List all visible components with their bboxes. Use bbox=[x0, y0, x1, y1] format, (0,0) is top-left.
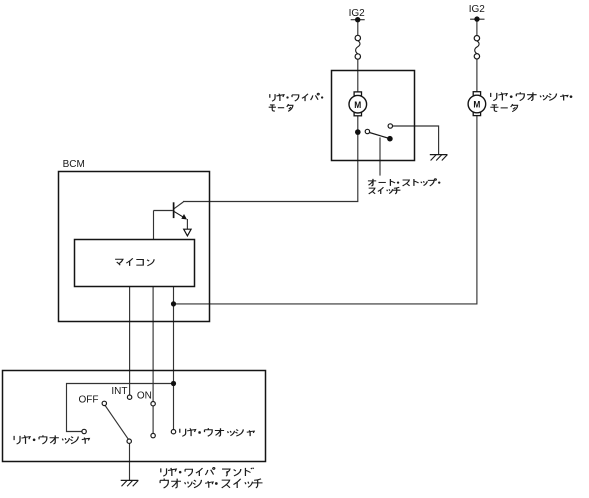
svg-text:IG2: IG2 bbox=[469, 4, 486, 15]
svg-text:OFF: OFF bbox=[79, 395, 99, 406]
svg-text:INT: INT bbox=[111, 386, 127, 397]
svg-text:IG2: IG2 bbox=[349, 8, 366, 19]
svg-text:M: M bbox=[473, 100, 480, 111]
svg-text:ON: ON bbox=[137, 390, 152, 401]
svg-text:BCM: BCM bbox=[63, 159, 85, 170]
svg-text:M: M bbox=[354, 100, 361, 111]
